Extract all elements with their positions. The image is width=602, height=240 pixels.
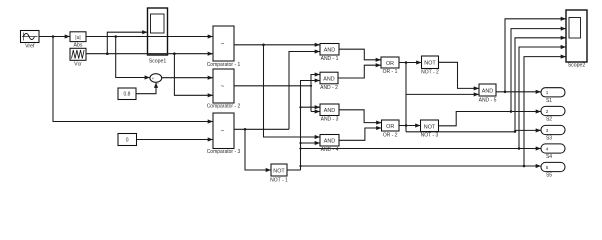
wire NOT-1 riser to outport S4 line: [301, 148, 541, 150]
svg-text:Comparator - 1: Comparator - 1: [207, 62, 241, 68]
node Abs branch: [114, 35, 117, 38]
svg-text:0.8: 0.8: [124, 92, 131, 98]
wire sum to Comparator-2 input 1: [162, 77, 213, 79]
wire Vref down to Comparator-3 input 1: [53, 37, 213, 122]
gate NOT-2: [422, 56, 439, 69]
node V4 T at C2 bracket: [310, 85, 312, 87]
svg-text:NOT - 3: NOT - 3: [421, 133, 439, 139]
svg-text:AND: AND: [324, 48, 335, 54]
gate OR-2: [382, 120, 400, 131]
node OR-2 branch: [405, 124, 408, 127]
svg-text:2: 2: [546, 109, 549, 114]
wire NOT-2 output to AND-5 input 1: [439, 62, 479, 88]
gate AND-2: [320, 72, 338, 84]
node C3 branch to NOT-1: [244, 128, 247, 131]
comparator U2 Comparator-2: [213, 69, 234, 103]
abs block Abs: [70, 32, 86, 42]
outport S4: [541, 144, 565, 153]
gate AND-3: [320, 104, 339, 116]
wire C3 riser up to AND-1 input 2: [289, 52, 320, 130]
wire Vcr to Comparator-1 input 2: [86, 53, 213, 55]
source Vcr (carrier): [70, 48, 86, 60]
wire constant 0 to Comparator-3 input 2: [137, 139, 213, 141]
wire OR branch vertical: [405, 63, 407, 132]
wire C3 branch down to NOT-1 input: [245, 129, 271, 170]
wire AND-2 output to OR-1 input 2: [338, 65, 381, 78]
comparator U3 Comparator-3: [213, 113, 234, 149]
outport S5: [541, 162, 565, 171]
gate OR-1: [381, 57, 399, 68]
svg-text:OR - 1: OR - 1: [383, 69, 398, 75]
node V4 T S4: [299, 147, 301, 149]
svg-text:5: 5: [546, 165, 549, 170]
wire NOT-1 riser to AND-3 input 1: [301, 106, 320, 108]
node Vcr scope branch: [106, 52, 109, 55]
wire S2 tap up to Scope2 input 2: [511, 29, 566, 112]
svg-text:~: ~: [221, 84, 225, 90]
scope Scope1: [148, 8, 168, 55]
node Vref branch: [52, 35, 55, 38]
wire OR branch to AND-5 input 2: [406, 93, 479, 95]
svg-text:AND: AND: [324, 139, 335, 145]
wire OR-1 output to NOT-2 input: [399, 62, 421, 64]
wire Vref to Abs: [39, 36, 70, 38]
node Vcr comp2 branch: [173, 52, 176, 55]
svg-text:NOT: NOT: [424, 124, 436, 130]
svg-text:Vref: Vref: [25, 44, 35, 50]
wire NOT-1 riser to AND-4 input 2: [301, 142, 320, 144]
gate AND-4: [320, 135, 339, 147]
svg-text:Scope1: Scope1: [149, 59, 167, 65]
wire AND-4 output to OR-2 input 2: [339, 128, 381, 140]
svg-text:~: ~: [221, 42, 225, 48]
svg-text:AND - 2: AND - 2: [320, 85, 338, 91]
node V4 T AND-3: [299, 106, 301, 108]
svg-text:|u|: |u|: [75, 35, 80, 41]
wire NOT-1 output to riser: [287, 169, 301, 171]
node S4 scope tap: [518, 147, 521, 150]
wire Vcr branch down to Comparator-2 input 2: [174, 54, 212, 96]
node C1 branch: [262, 44, 265, 47]
outport S3: [541, 125, 565, 134]
node OR-1 branch: [405, 61, 408, 64]
wire C2 bracket to AND-2 input 1: [311, 75, 320, 112]
scope Scope2: [566, 10, 587, 62]
wire NOT-1 riser up to AND-2 input 2: [301, 81, 320, 171]
gate NOT-3: [421, 120, 439, 132]
wire Comparator-2 output to bracket: [234, 85, 311, 87]
svg-text:AND - 5: AND - 5: [479, 97, 497, 103]
svg-text:OR: OR: [386, 61, 394, 67]
svg-text:0: 0: [126, 138, 129, 144]
gate NOT-1: [271, 164, 287, 176]
wire Vcr branch up to Scope1: [107, 32, 147, 54]
svg-text:S4: S4: [546, 154, 552, 160]
constant 0.8: [118, 88, 136, 100]
svg-text:S2: S2: [546, 117, 552, 123]
svg-text:Abs: Abs: [74, 42, 83, 48]
wire S4 tap up to Scope2 input 4: [519, 47, 566, 149]
wire AND-1 output to OR-1 input 1: [339, 49, 381, 60]
svg-text:NOT: NOT: [424, 61, 436, 67]
wire S5 tap up to Scope2 input 5: [524, 57, 566, 166]
svg-text:AND: AND: [324, 108, 335, 114]
svg-text:Comparator - 2: Comparator - 2: [207, 103, 241, 109]
wire Comparator-3 output to vertical riser: [234, 128, 289, 130]
svg-text:Comparator - 3: Comparator - 3: [207, 149, 241, 155]
wire Comparator-1 output to AND-1 input 1: [234, 44, 320, 46]
wire C1 branch down to AND-4 input 1: [264, 45, 320, 137]
wire S3 tap up to Scope2 input 3: [515, 38, 566, 132]
outport S1: [541, 88, 565, 97]
outport S2: [541, 106, 565, 115]
svg-text:NOT: NOT: [273, 168, 285, 174]
svg-text:OR - 2: OR - 2: [383, 133, 398, 139]
constant 0: [118, 134, 137, 146]
svg-text:3: 3: [546, 128, 549, 133]
svg-text:_: _: [155, 78, 159, 83]
node V4 T AND-4: [299, 142, 301, 144]
svg-text:+: +: [152, 76, 155, 81]
wire OR-2 output to NOT-3 input: [399, 125, 420, 127]
wire NOT-1 output to outport S5: [301, 165, 541, 167]
wire S1 tap up to Scope2 input 1: [505, 19, 566, 92]
svg-text:NOT - 1: NOT - 1: [270, 178, 288, 184]
svg-text:1: 1: [546, 90, 549, 95]
wire AND-3 output to OR-2 input 1: [339, 110, 381, 123]
node V4 T S5: [299, 165, 301, 167]
svg-text:AND: AND: [323, 76, 334, 82]
svg-text:S5: S5: [546, 173, 552, 179]
svg-text:~: ~: [221, 129, 225, 135]
wire constant 0.8 up into sum: [136, 83, 156, 94]
node S1 scope tap: [504, 91, 507, 94]
wire OR branch down to outport S3: [406, 131, 515, 133]
svg-text:AND: AND: [482, 88, 493, 94]
sum block: [150, 74, 162, 84]
svg-text:Scope2: Scope2: [568, 62, 586, 68]
gate AND-5: [479, 84, 496, 96]
svg-text:AND - 1: AND - 1: [321, 56, 339, 62]
svg-text:Vcr: Vcr: [74, 62, 82, 68]
node S3 scope tap: [514, 130, 517, 133]
source Vref: [21, 31, 40, 43]
wire Abs branch down to sum: [116, 37, 150, 78]
wire NOT-3 output to outport S2: [439, 112, 541, 126]
svg-text:S3: S3: [546, 136, 552, 142]
svg-text:S1: S1: [546, 98, 552, 104]
svg-text:NOT - 2: NOT - 2: [421, 69, 439, 75]
gate AND-1: [320, 44, 339, 56]
node S2 scope tap: [510, 110, 513, 113]
wire AND-5 output to outport S1: [496, 91, 541, 93]
svg-text:OR: OR: [386, 124, 394, 130]
node S5 scope tap: [523, 165, 526, 168]
svg-text:AND - 4: AND - 4: [321, 147, 339, 153]
wire C2 bracket to AND-3 input 2: [311, 111, 320, 113]
svg-text:AND - 3: AND - 3: [321, 117, 339, 123]
wire Abs to Comparator-1 input 1: [86, 36, 213, 38]
comparator U1 Comparator-1: [213, 26, 234, 61]
svg-text:4: 4: [546, 146, 549, 151]
